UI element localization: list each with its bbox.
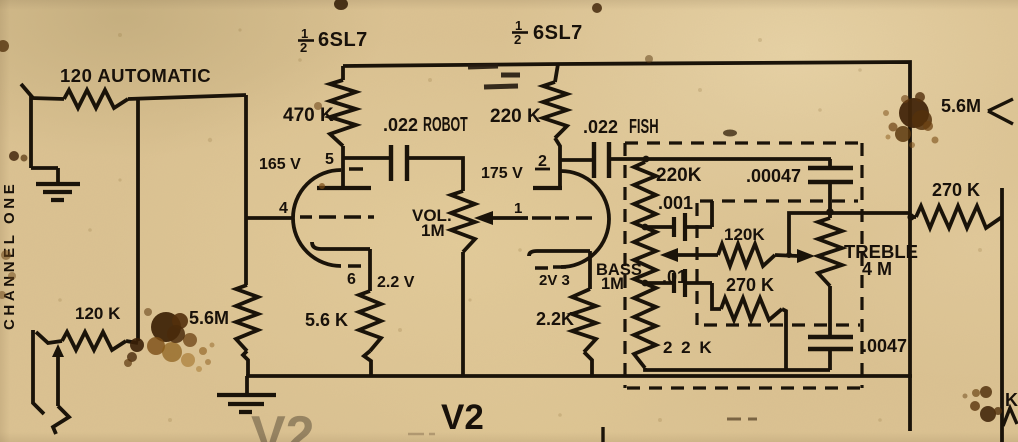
svg-text:ROBOT: ROBOT xyxy=(423,113,468,136)
svg-text:V2: V2 xyxy=(251,406,315,442)
svg-text:6SL7: 6SL7 xyxy=(318,29,368,51)
svg-text:.0047: .0047 xyxy=(862,336,907,356)
svg-text:270 K: 270 K xyxy=(932,180,980,200)
svg-text:1: 1 xyxy=(515,18,522,33)
svg-text:5.6 K: 5.6 K xyxy=(305,310,348,330)
svg-text:1M: 1M xyxy=(421,221,445,240)
svg-text:6SL7: 6SL7 xyxy=(533,22,583,44)
svg-text:2.2K: 2.2K xyxy=(536,309,574,329)
svg-text:175 V: 175 V xyxy=(481,165,523,182)
svg-text:V2: V2 xyxy=(441,398,484,437)
svg-text:5.6M: 5.6M xyxy=(189,308,229,328)
svg-text:5: 5 xyxy=(325,151,334,168)
svg-text:220 K: 220 K xyxy=(490,106,541,127)
svg-text:470 K: 470 K xyxy=(283,105,334,126)
svg-text:.001: .001 xyxy=(658,193,693,213)
svg-text:1: 1 xyxy=(301,26,308,41)
svg-text:.022: .022 xyxy=(583,117,618,137)
svg-text:2: 2 xyxy=(538,153,547,170)
svg-text:1: 1 xyxy=(514,200,522,217)
svg-text:270 K: 270 K xyxy=(726,275,774,295)
svg-text:120K: 120K xyxy=(724,225,765,244)
svg-text:4 M: 4 M xyxy=(862,259,892,279)
svg-text:165 V: 165 V xyxy=(259,156,301,173)
svg-text:.00047: .00047 xyxy=(746,166,801,186)
svg-text:.01: .01 xyxy=(662,267,687,287)
svg-text:2: 2 xyxy=(300,40,307,55)
svg-text:K: K xyxy=(1005,390,1018,410)
svg-text:.022: .022 xyxy=(383,115,418,135)
svg-text:2 2 K: 2 2 K xyxy=(663,338,714,357)
svg-text:120 AUTOMATIC: 120 AUTOMATIC xyxy=(60,65,211,86)
svg-text:2V 3: 2V 3 xyxy=(539,272,570,289)
svg-text:5.6M: 5.6M xyxy=(941,96,981,116)
svg-text:2: 2 xyxy=(514,32,521,47)
svg-text:120 K: 120 K xyxy=(75,304,121,323)
svg-text:1M: 1M xyxy=(601,275,624,293)
svg-text:6: 6 xyxy=(347,271,356,288)
svg-text:4: 4 xyxy=(279,200,288,217)
svg-text:220K: 220K xyxy=(656,165,702,186)
svg-text:FISH: FISH xyxy=(629,115,659,138)
svg-text:2.2 V: 2.2 V xyxy=(377,274,415,291)
